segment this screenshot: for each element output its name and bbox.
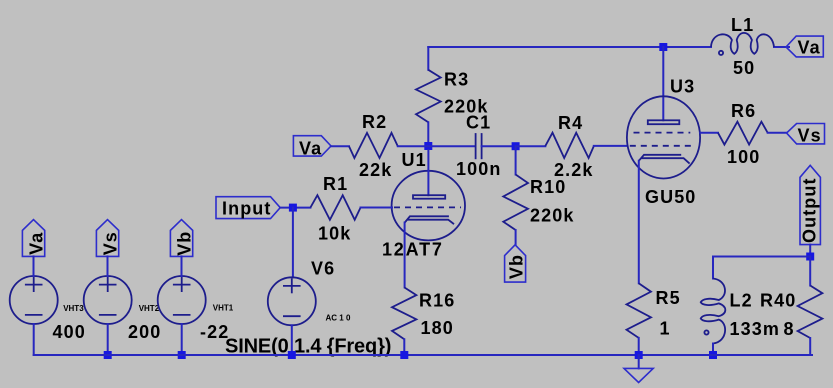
svg-text:Output: Output (800, 177, 820, 243)
svg-text:-22: -22 (200, 322, 229, 342)
svg-text:12AT7: 12AT7 (382, 240, 444, 260)
op-amp U1 12AT7 triode (392, 150, 465, 240)
resistor R5 (627, 283, 652, 338)
svg-text:VHT3: VHT3 (63, 304, 84, 313)
cathode wire U3 to R5 (638, 161, 640, 283)
voltage source VHT3 (10, 276, 58, 324)
node junction top (U3 plate tap) (659, 43, 667, 51)
svg-text:10k: 10k (318, 224, 351, 244)
svg-text:R4: R4 (558, 113, 583, 133)
flag Vs (787, 124, 825, 146)
svg-text:Vb: Vb (507, 254, 527, 279)
screen grid U3 (dashed) (634, 132, 691, 134)
wire VHT1 to rail (181, 324, 183, 355)
svg-text:R16: R16 (419, 291, 455, 311)
node junction R5/rail/ground (635, 351, 643, 359)
flag Va (top right) (786, 36, 823, 57)
wire R1 to U1 grid (361, 207, 393, 209)
tube envelope U3 (627, 96, 700, 178)
wire R2 to node (398, 145, 429, 147)
svg-text:R6: R6 (731, 101, 756, 121)
svg-text:100: 100 (727, 147, 760, 167)
wire VHT2 to rail (107, 324, 109, 355)
resistor R6 (718, 122, 768, 145)
resistor R2 (349, 133, 398, 158)
wire V6 to rail (291, 325, 293, 355)
svg-text:L2: L2 (730, 291, 753, 311)
svg-text:1: 1 (660, 319, 671, 339)
svg-text:22k: 22k (359, 160, 392, 180)
svg-text:R5: R5 (656, 288, 681, 308)
flag Va (mid left) (293, 136, 331, 159)
wire node to R4 (516, 145, 546, 147)
node junction Input/V6/R1 (289, 204, 297, 212)
svg-text:V6: V6 (311, 259, 335, 279)
svg-text:GU50: GU50 (645, 187, 696, 207)
node junction Output/L2/R40 (806, 253, 814, 261)
svg-text:U3: U3 (670, 77, 695, 97)
svg-text:220k: 220k (530, 206, 574, 226)
svg-text:U1: U1 (402, 150, 427, 170)
resistor R3 (416, 47, 441, 146)
cathode wire U1 to R16 (404, 223, 406, 288)
voltage source VHT2 (84, 276, 132, 324)
wire Va flag to R2 (331, 145, 349, 147)
voltage source VHT1 (158, 276, 206, 324)
svg-text:Vs: Vs (101, 231, 121, 255)
wire L2 to rail (712, 344, 714, 356)
wire C1 to node (482, 145, 516, 147)
svg-text:VHT2: VHT2 (139, 304, 160, 313)
node junction V6/rail (288, 351, 296, 359)
node junction VHT2/rail (104, 351, 112, 359)
node junction VHT1/rail (178, 351, 186, 359)
resistor R1 (310, 195, 360, 220)
wire L1 to Va flag (774, 46, 789, 48)
svg-text:R3: R3 (444, 70, 469, 90)
flag Vb (over VHT1) (170, 220, 194, 257)
svg-text:AC 1 0: AC 1 0 (326, 314, 351, 323)
svg-text:200: 200 (128, 322, 161, 342)
flag Vb (below R10) (505, 245, 527, 282)
flag Vs (over VHT2) (96, 220, 120, 257)
inductor L1 (711, 33, 774, 55)
wire ground rail (34, 354, 812, 356)
svg-text:C1: C1 (466, 113, 491, 133)
svg-text:Va: Va (27, 232, 47, 255)
svg-text:R10: R10 (530, 177, 566, 197)
svg-text:133m: 133m (730, 319, 780, 339)
svg-text:R40: R40 (760, 291, 796, 311)
svg-text:R1: R1 (323, 174, 348, 194)
tube envelope U1 (392, 171, 465, 241)
wire R16 to rail (403, 339, 405, 355)
svg-text:50: 50 (733, 58, 755, 78)
ground (624, 355, 653, 383)
wire Input to node (280, 207, 310, 209)
wire R6 to Vs flag (768, 132, 787, 134)
grid U1 (dashed) (394, 206, 461, 208)
svg-text:8: 8 (784, 319, 795, 339)
flag Output (800, 165, 821, 244)
wire top bus (428, 46, 711, 48)
wire flag to VHT2 (107, 256, 109, 276)
svg-text:R2: R2 (362, 112, 387, 132)
phase dot L1 (719, 51, 723, 55)
svg-text:100n: 100n (456, 159, 501, 179)
wire node to C1 (428, 145, 475, 147)
svg-text:Vb: Vb (175, 231, 195, 256)
resistor R10 (503, 146, 528, 245)
node junction L2/rail (709, 351, 717, 359)
voltage source V6 (268, 277, 316, 325)
wire R4 to U3 grid (594, 145, 627, 147)
cathode U3 (639, 155, 690, 164)
svg-text:Va: Va (299, 139, 322, 159)
svg-text:180: 180 (421, 318, 454, 338)
svg-text:400: 400 (53, 322, 86, 342)
plate U3 (648, 120, 680, 124)
capacitor C1 (476, 133, 482, 159)
wire U3 plate drop (662, 47, 664, 120)
wire flag to VHT3 (33, 256, 35, 276)
inductor L2 (701, 279, 726, 344)
flag Va (over VHT3) (22, 220, 46, 257)
plate U1 (427, 150, 429, 195)
flag Input (216, 197, 280, 219)
node junction R3/R2/C1/U1 (424, 142, 432, 150)
wire flag to VHT1 (181, 256, 183, 276)
svg-text:L1: L1 (731, 15, 754, 35)
wire R5 to rail (638, 338, 640, 355)
wire node to V6 (292, 208, 294, 278)
cathode U1 (405, 216, 454, 224)
node junction R16/rail (400, 351, 408, 359)
svg-text:Input: Input (222, 199, 271, 219)
node junction C1/R4/R10 (512, 142, 520, 150)
phase dot L2 (704, 330, 708, 334)
svg-text:Va: Va (798, 38, 821, 58)
resistor R4 (545, 133, 594, 158)
wire node to L2 top (713, 257, 810, 279)
wire U3 screen to R6 (700, 132, 718, 134)
svg-text:VHT1: VHT1 (213, 303, 234, 312)
transistor U3 GU50 pentode (627, 96, 700, 178)
wire Output flag to node (809, 245, 811, 257)
resistor R40 (798, 257, 823, 356)
control grid U3 (dashed) (630, 145, 692, 147)
resistor R16 (392, 287, 416, 339)
svg-text:Vs: Vs (798, 126, 822, 146)
wire VHT3 to rail (33, 324, 35, 355)
